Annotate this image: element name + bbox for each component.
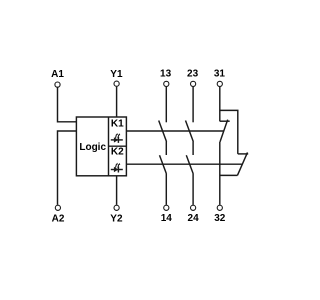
svg-text:23: 23 <box>187 68 199 79</box>
terminal 24 <box>188 205 200 224</box>
wire down to 32 <box>219 142 221 205</box>
wire contact to 24 <box>192 174 194 205</box>
svg-text:Y1: Y1 <box>110 69 123 80</box>
svg-text:32: 32 <box>214 213 226 224</box>
terminal 31 <box>214 68 226 86</box>
logic unit box <box>76 117 126 176</box>
svg-text:14: 14 <box>161 213 173 224</box>
mechanical linkage K1 <box>126 130 224 132</box>
divider relay K1 / K2 <box>109 145 127 147</box>
terminal A2 <box>52 205 65 224</box>
svg-text:A1: A1 <box>51 69 64 80</box>
contact K2 NO (23-24) <box>186 155 193 174</box>
svg-text:A2: A2 <box>52 213 65 224</box>
divider logic / relay column <box>108 117 110 176</box>
wire between contacts 23-24 <box>192 142 194 156</box>
wire contact to 14 <box>165 174 167 205</box>
svg-text:13: 13 <box>160 68 172 79</box>
mechanical linkage K2 <box>126 163 242 165</box>
terminal A1 <box>51 69 64 87</box>
NC seat bar contact K2 (31-32) <box>238 153 248 155</box>
contact K2 NC (31-32) <box>237 152 247 175</box>
terminal 13 <box>160 68 172 86</box>
svg-text:Logic: Logic <box>79 142 106 153</box>
wire branch 31 to right leg <box>220 110 238 153</box>
svg-text:24: 24 <box>188 213 200 224</box>
svg-text:31: 31 <box>214 68 226 79</box>
wire A1 to logic box <box>58 87 77 121</box>
terminal 32 <box>214 205 226 224</box>
terminal Y1 <box>110 69 123 86</box>
wire 31 down to NC contact K1 <box>219 87 221 121</box>
wire Y1 to relay box <box>116 87 118 117</box>
wire 23 to contact <box>192 87 194 122</box>
svg-text:K2: K2 <box>111 147 124 158</box>
wire relay box to Y2 <box>116 176 118 205</box>
contact K1 NO (23-24) <box>186 121 194 142</box>
terminal Y2 <box>110 205 123 224</box>
LED indicator K2 <box>111 163 123 173</box>
wire 13 to contact <box>165 87 167 122</box>
svg-text:K1: K1 <box>111 119 124 130</box>
terminal 23 <box>187 68 199 86</box>
LED indicator K1 <box>111 133 123 143</box>
contact K2 NO (13-14) <box>160 155 167 174</box>
wire NC contact K2 to node <box>220 174 238 176</box>
contact K1 NO (13-14) <box>159 121 167 142</box>
NC seat bar contact K1 (31-32) <box>220 120 230 122</box>
contact K1 NC (31-32) <box>220 120 228 142</box>
terminal 14 <box>161 205 173 224</box>
svg-text:Y2: Y2 <box>110 213 123 224</box>
wire between contacts 13-14 <box>165 142 167 156</box>
wire logic box to A2 <box>58 131 77 205</box>
